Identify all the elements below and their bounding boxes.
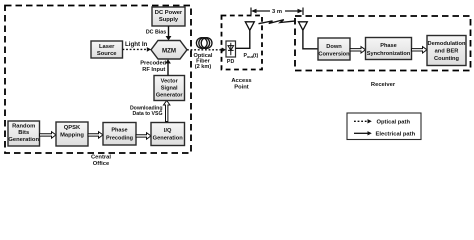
svg-text:Pout(t): Pout(t) (244, 53, 259, 59)
svg-text:Bits: Bits (18, 130, 29, 136)
receiver antenna (299, 22, 308, 30)
optical fiber coil (196, 38, 212, 49)
demodulation and BER counting box (427, 36, 466, 66)
svg-text:Vector: Vector (161, 79, 179, 85)
electrical wire receiver antenna to down conversion (303, 30, 318, 49)
central office dashed box (5, 6, 191, 154)
svg-text:and BER: and BER (435, 49, 459, 55)
wire DC bias arrow from DC power supply to MZM (168, 26, 170, 37)
hollow vertical arrow I/Q generation to VSG (164, 101, 170, 122)
svg-text:Demodulation: Demodulation (428, 41, 466, 47)
svg-text:Generation: Generation (8, 137, 39, 143)
hollow arrow random bits to QPSK (40, 132, 57, 138)
hollow arrow down conversion to phase synchronization (350, 47, 366, 53)
photodiode PD box (226, 41, 236, 57)
hollow arrow phase synchronization to demodulation (412, 47, 428, 53)
svg-text:Signal: Signal (161, 86, 178, 92)
precoded RF input label (140, 61, 166, 73)
svg-text:(2 km): (2 km) (195, 64, 212, 70)
svg-text:Central: Central (91, 155, 111, 161)
central office label (91, 155, 111, 168)
svg-text:PD: PD (227, 59, 235, 65)
svg-text:MZM: MZM (162, 47, 176, 54)
optical dashed wire MZM to PD (187, 49, 223, 51)
svg-text:Synchronization: Synchronization (367, 51, 411, 57)
wireless lightning bolt (259, 20, 295, 24)
svg-text:Light In: Light In (125, 41, 148, 48)
svg-text:I/Q: I/Q (164, 128, 172, 134)
svg-text:Access: Access (231, 78, 251, 84)
downloading data to VSG label (130, 106, 163, 118)
laser source box (91, 41, 123, 58)
photodiode symbol (228, 43, 234, 55)
MZM modulator hexagon (151, 41, 187, 60)
vector signal generator box (154, 76, 185, 101)
access point dashed box (222, 16, 263, 70)
svg-text:Laser: Laser (99, 44, 115, 50)
svg-text:Point: Point (234, 85, 249, 91)
optical dashed wire laser to MZM (123, 48, 148, 50)
svg-text:Generation: Generation (153, 135, 184, 141)
3 m dimension ticks and arrows (251, 8, 303, 16)
svg-text:Conversion: Conversion (318, 52, 350, 58)
svg-text:Precoded: Precoded (140, 61, 166, 67)
svg-text:Random: Random (12, 124, 35, 130)
legend electrical solid arrow (354, 132, 368, 134)
QPSK mapping box (56, 122, 88, 146)
legend box (347, 113, 421, 140)
svg-text:Source: Source (97, 51, 117, 57)
svg-text:DC Power: DC Power (155, 10, 183, 16)
optical fiber label (194, 53, 213, 70)
DC power supply box U-DC (152, 7, 185, 26)
electrical wire PD to AP antenna (236, 30, 250, 48)
svg-text:Precoding: Precoding (106, 135, 133, 141)
svg-text:Generator: Generator (156, 93, 184, 99)
svg-text:Down: Down (326, 44, 342, 50)
legend optical dashed arrow (354, 120, 368, 122)
svg-text:Phase: Phase (380, 43, 396, 49)
random bits generation box (8, 121, 40, 146)
electrical arrow VSG to MZM (167, 63, 169, 76)
hollow arrow phase precoding to I/Q generation (136, 133, 151, 139)
svg-text:DC Bias: DC Bias (146, 30, 166, 36)
svg-text:Optical path: Optical path (377, 120, 411, 126)
svg-text:Receiver: Receiver (371, 82, 396, 88)
receiver dashed box (295, 16, 471, 71)
svg-text:Office: Office (93, 161, 110, 167)
I/Q generation box (151, 123, 185, 146)
svg-text:QPSK: QPSK (64, 125, 81, 131)
hollow arrow QPSK to phase precoding (88, 132, 103, 138)
svg-text:Data to VSG: Data to VSG (133, 111, 163, 117)
svg-text:3 m: 3 m (272, 9, 282, 15)
down conversion box (318, 38, 350, 60)
phase synchronization box (366, 38, 412, 60)
svg-text:Counting: Counting (434, 56, 459, 62)
AP antenna (245, 22, 254, 31)
svg-text:Supply: Supply (159, 17, 179, 23)
svg-text:Phase: Phase (111, 128, 127, 134)
phase precoding box (103, 123, 136, 146)
svg-text:RF Input: RF Input (142, 67, 165, 73)
access point label (231, 78, 251, 91)
svg-text:Electrical path: Electrical path (376, 132, 416, 138)
svg-text:Mapping: Mapping (60, 133, 84, 139)
